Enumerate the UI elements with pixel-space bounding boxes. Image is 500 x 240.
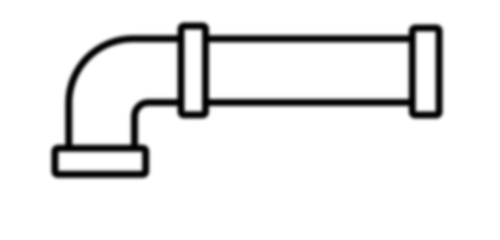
right end flange (412, 28, 439, 115)
coupling flange (middle) (181, 26, 206, 115)
straight pipe section (196, 39, 419, 103)
bottom-left flange (55, 148, 146, 174)
elbow pipe body (69, 39, 190, 152)
